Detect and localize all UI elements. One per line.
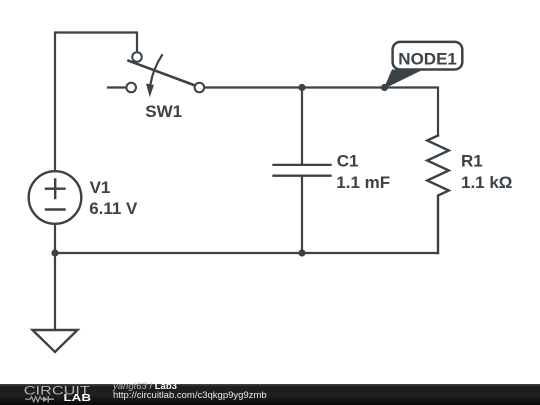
svg-text:6.11 V: 6.11 V xyxy=(89,199,138,218)
svg-text:NODE1: NODE1 xyxy=(398,50,457,69)
svg-text:C1: C1 xyxy=(337,152,359,171)
svg-text:LAB: LAB xyxy=(64,393,92,404)
svg-text:SW1: SW1 xyxy=(145,102,182,121)
svg-text:1.1 mF: 1.1 mF xyxy=(336,173,390,192)
svg-text:R1: R1 xyxy=(461,152,483,171)
svg-text:V1: V1 xyxy=(90,178,111,197)
svg-text:1.1 kΩ: 1.1 kΩ xyxy=(461,173,512,192)
